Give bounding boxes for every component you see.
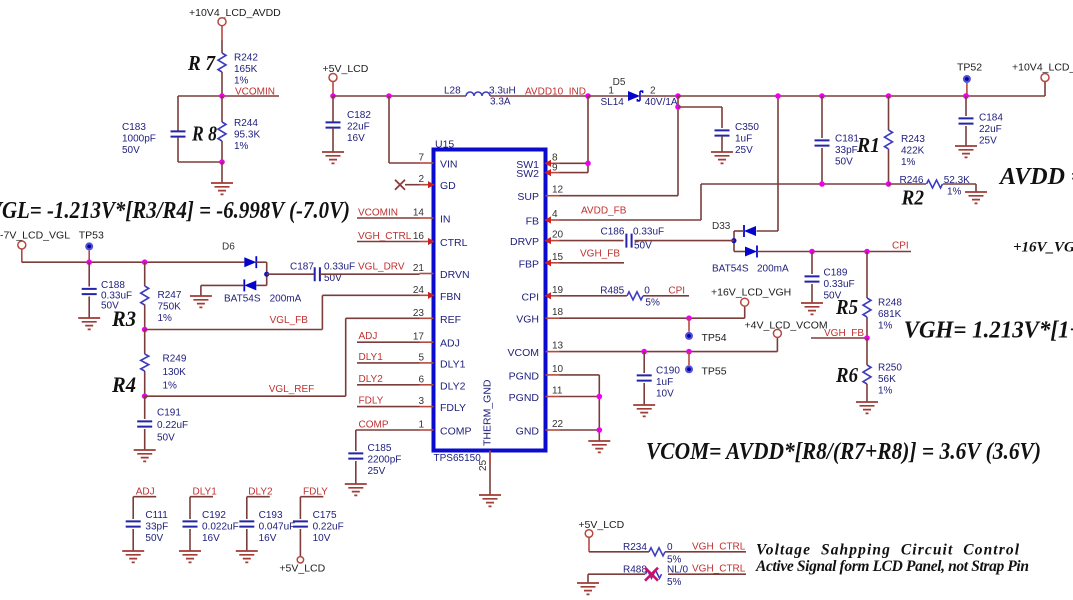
svg-text:R242: R242: [234, 53, 258, 64]
node C184 top junction: [963, 93, 969, 99]
wire strap row2 left: [588, 573, 645, 575]
svg-text:+5V_LCD: +5V_LCD: [279, 563, 325, 575]
node VGH_FB junction: [864, 335, 870, 341]
svg-text:750K: 750K: [158, 301, 182, 312]
node VGL_REF junction: [142, 393, 148, 399]
svg-text:C183: C183: [122, 122, 146, 133]
resistor R248 (R5): [866, 252, 868, 299]
svg-text:5%: 5%: [645, 298, 660, 309]
svg-text:DLY1: DLY1: [440, 358, 466, 370]
node VIN tap junction: [386, 93, 392, 99]
capacitor C111: [132, 497, 134, 519]
svg-text:R246: R246: [900, 175, 924, 186]
svg-text:R485: R485: [600, 286, 624, 297]
svg-text:681K: 681K: [878, 309, 902, 320]
svg-text:1%: 1%: [158, 313, 173, 324]
node PGND11 junction: [597, 394, 603, 400]
ground below GND pins: [588, 441, 610, 452]
svg-text:TP52: TP52: [957, 62, 982, 74]
svg-text:VGL_DRV: VGL_DRV: [358, 262, 405, 273]
svg-text:+5V_LCD: +5V_LCD: [578, 519, 624, 531]
svg-text:25V: 25V: [368, 466, 386, 477]
svg-text:Voltage Sahpping Circuit Co: Voltage Sahpping Circuit Control: [756, 542, 1020, 559]
node D33 riser junction: [775, 93, 781, 99]
svg-text:3.3A: 3.3A: [490, 97, 511, 108]
pin 25 THERM_GND stub: [489, 451, 491, 496]
svg-text:FDLY: FDLY: [440, 402, 466, 414]
capacitor C190: [643, 352, 645, 373]
svg-text:VGH_CTRL: VGH_CTRL: [692, 542, 746, 553]
svg-text:-7V_LCD_VGL: -7V_LCD_VGL: [0, 230, 70, 242]
node TP54 junction: [686, 315, 692, 321]
svg-text:14: 14: [413, 208, 425, 219]
node R243 top junction: [886, 93, 892, 99]
svg-text:0.022uF: 0.022uF: [202, 521, 239, 532]
wire C187 to DRVN: [320, 273, 420, 275]
svg-text:25: 25: [478, 459, 489, 471]
node R8 bottom junction: [219, 159, 225, 165]
wire D6 lower left: [201, 284, 244, 286]
svg-text:VCOMIN: VCOMIN: [358, 208, 398, 219]
svg-text:CTRL: CTRL: [440, 237, 468, 249]
svg-text:VGH_CTRL: VGH_CTRL: [358, 231, 412, 242]
svg-text:50V: 50V: [145, 533, 163, 544]
resistor R246 (R2): [889, 183, 927, 185]
svg-text:CPI: CPI: [521, 291, 539, 303]
resistor R250 (R6): [866, 338, 868, 365]
svg-text:+5V_LCD: +5V_LCD: [323, 63, 369, 75]
wire SW riser: [587, 96, 589, 173]
svg-text:C111: C111: [145, 510, 168, 521]
svg-text:C187: C187: [290, 262, 314, 273]
node +5V junction: [330, 93, 336, 99]
wire L28 to D5 node: [490, 95, 588, 97]
ground below strap: [577, 583, 599, 594]
svg-text:17: 17: [413, 332, 425, 343]
wire VGL_FB net: [145, 329, 323, 331]
node TP52 junction: [963, 93, 969, 99]
ground below R246: [965, 192, 987, 203]
svg-text:PGND: PGND: [509, 392, 540, 404]
node VCOMIN junction: [219, 93, 225, 99]
svg-text:22: 22: [552, 419, 564, 430]
resistor R234: [649, 548, 665, 556]
svg-text:1%: 1%: [163, 381, 178, 392]
svg-text:DLY1: DLY1: [359, 352, 384, 363]
svg-text:4: 4: [552, 209, 558, 220]
wire SW2 stub: [560, 172, 589, 174]
node C189 top junction: [809, 249, 815, 255]
svg-text:11: 11: [552, 386, 563, 397]
wire VGL rail: [22, 261, 245, 263]
svg-text:REF: REF: [440, 314, 461, 326]
wire VGH_FB stub: [811, 337, 867, 339]
svg-text:VGH_FB: VGH_FB: [580, 249, 620, 260]
svg-text:0: 0: [644, 286, 650, 297]
wire VGH net: [560, 317, 745, 319]
svg-text:1%: 1%: [878, 385, 893, 396]
svg-text:VCOM: VCOM: [508, 347, 540, 359]
node AVDD junction 1: [675, 93, 681, 99]
port +5V_LCD (under C175): [297, 557, 303, 563]
svg-text:VGH_CTRL: VGH_CTRL: [692, 564, 746, 575]
ground below R250: [856, 402, 878, 413]
svg-text:R1: R1: [856, 133, 880, 157]
node C190 junction: [641, 349, 647, 355]
svg-text:52.3K: 52.3K: [944, 175, 970, 186]
svg-text:AVDD = 1.213V*[1+R1/R2] = 10.4: AVDD = 1.213V*[1+R1/R2] = 10.4V: [998, 164, 1073, 190]
svg-text:CPI: CPI: [892, 241, 909, 252]
svg-text:9: 9: [552, 162, 558, 173]
capacitor C186: [626, 234, 631, 248]
svg-text:5: 5: [418, 352, 424, 363]
svg-text:13: 13: [552, 341, 564, 352]
wire FBP stub: [560, 262, 625, 264]
svg-text:R243: R243: [901, 134, 925, 145]
node TP53 junction: [86, 259, 92, 265]
svg-text:FBN: FBN: [440, 291, 461, 303]
wire D33 left link: [734, 230, 744, 232]
wire AVDD_FB rail: [701, 183, 889, 185]
svg-text:50V: 50V: [122, 145, 140, 156]
svg-text:DRVN: DRVN: [440, 269, 470, 281]
svg-text:50V: 50V: [157, 433, 175, 444]
resistor R249 (R4): [144, 330, 146, 355]
svg-text:DLY2: DLY2: [440, 380, 466, 392]
ground below C190: [633, 405, 655, 416]
ground below C350: [711, 152, 733, 163]
wire COMP net: [356, 429, 420, 431]
svg-text:L28: L28: [444, 86, 461, 97]
svg-text:0.33uF: 0.33uF: [824, 279, 855, 290]
ground below C188: [78, 318, 100, 329]
test point TP55: [688, 352, 690, 366]
wire PGND11 net: [560, 396, 600, 398]
wire AVDD main rail: [678, 95, 1045, 97]
svg-text:C184: C184: [979, 113, 1003, 124]
svg-text:R244: R244: [234, 118, 258, 129]
svg-text:C193: C193: [259, 510, 283, 521]
op-amp U1 chip body TPS65150 U15: [434, 150, 546, 451]
svg-text:130K: 130K: [163, 367, 187, 378]
ground below C191: [134, 450, 156, 461]
wire DRVP to C186: [560, 240, 624, 242]
svg-text:R3: R3: [111, 306, 136, 331]
diode D5 SL14: [628, 91, 640, 101]
svg-text:C181: C181: [835, 134, 859, 145]
ground below C184: [955, 146, 977, 157]
capacitor C193: [246, 497, 248, 519]
svg-text:0.22uF: 0.22uF: [313, 521, 344, 532]
svg-text:3: 3: [418, 396, 424, 407]
ground below C185: [345, 484, 367, 495]
svg-text:10V: 10V: [656, 388, 674, 399]
wire D5 anode: [588, 95, 628, 97]
wire VCOM net: [560, 351, 778, 353]
capacitor C182: [332, 96, 334, 122]
svg-text:TP55: TP55: [702, 366, 727, 378]
svg-text:1uF: 1uF: [656, 377, 673, 388]
wire CPI rail: [757, 251, 911, 253]
svg-text:FDLY: FDLY: [359, 396, 384, 407]
capacitor C185: [355, 430, 357, 451]
svg-text:1%: 1%: [901, 157, 916, 168]
svg-text:D5: D5: [613, 77, 626, 88]
svg-text:CPI: CPI: [668, 286, 685, 297]
svg-text:5%: 5%: [667, 577, 682, 588]
svg-text:U15: U15: [435, 139, 454, 151]
svg-text:C192: C192: [202, 510, 226, 521]
wire C183 bottom lead: [177, 137, 179, 162]
svg-text:R249: R249: [163, 354, 187, 365]
svg-text:25V: 25V: [979, 135, 997, 146]
test point TP54: [688, 318, 690, 332]
svg-text:BAT54S: BAT54S: [224, 294, 261, 305]
resistor R485: [627, 292, 643, 300]
no-connect X on GD pin: [395, 180, 405, 190]
svg-text:0.33uF: 0.33uF: [633, 227, 664, 238]
svg-text:+10V4_LCD_AVDD: +10V4_LCD_AVDD: [1012, 62, 1073, 74]
svg-text:22uF: 22uF: [979, 124, 1002, 135]
wire CPI pin to R485: [560, 295, 627, 297]
capacitor C187: [315, 267, 320, 281]
svg-text:1%: 1%: [234, 75, 249, 86]
svg-text:50V: 50V: [634, 241, 652, 252]
svg-text:SUP: SUP: [517, 191, 539, 203]
wire VIN feed: [388, 96, 390, 163]
svg-text:R 8: R 8: [191, 122, 217, 146]
resistor R247 (R3): [144, 262, 146, 286]
wire R242 top lead: [221, 40, 223, 53]
svg-text:1: 1: [608, 86, 614, 97]
resistor R243 (R1): [888, 96, 890, 130]
wire strap row2 right: [668, 573, 746, 575]
svg-text:50V: 50V: [835, 156, 853, 167]
svg-text:VGL= -1.213V*[R3/R4] = -6.998V: VGL= -1.213V*[R3/R4] = -6.998V (-7.0V): [0, 198, 350, 224]
svg-text:AVDD10_IND: AVDD10_IND: [525, 87, 586, 98]
ground under pin 25: [479, 495, 501, 506]
svg-text:C350: C350: [735, 122, 759, 133]
svg-text:20: 20: [552, 230, 564, 241]
svg-text:C175: C175: [313, 510, 337, 521]
svg-text:0.33uF: 0.33uF: [324, 262, 355, 273]
svg-text:+10V4_LCD_AVDD: +10V4_LCD_AVDD: [189, 7, 281, 19]
wire to ground: [221, 162, 223, 183]
svg-text:1%: 1%: [234, 141, 249, 152]
svg-text:0.047uF: 0.047uF: [259, 521, 296, 532]
svg-text:200mA: 200mA: [270, 294, 302, 305]
svg-text:TP54: TP54: [702, 332, 727, 344]
svg-text:R5: R5: [835, 295, 858, 319]
capacitor C191: [144, 396, 146, 419]
wire D5 cathode: [640, 95, 678, 97]
diode D33 upper: [744, 226, 756, 236]
svg-text:FB: FB: [526, 216, 539, 228]
capacitor C183: [171, 131, 186, 136]
svg-text:422K: 422K: [901, 145, 925, 156]
svg-text:12: 12: [552, 185, 564, 196]
svg-text:AVDD_FB: AVDD_FB: [581, 206, 627, 217]
svg-text:COMP: COMP: [359, 420, 389, 431]
svg-text:+4V_LCD_VCOM: +4V_LCD_VCOM: [745, 320, 828, 332]
inductor L28: [466, 92, 490, 96]
svg-text:VIN: VIN: [440, 159, 458, 171]
svg-text:1uF: 1uF: [735, 133, 752, 144]
capacitor C175: [299, 497, 301, 519]
svg-text:D33: D33: [712, 221, 731, 232]
svg-text:VGL_REF: VGL_REF: [269, 384, 315, 395]
svg-text:SL14: SL14: [601, 97, 625, 108]
ground below C182: [322, 152, 344, 163]
wire strap row1 right: [665, 551, 746, 553]
svg-text:56K: 56K: [878, 374, 896, 385]
svg-text:DRVP: DRVP: [510, 236, 539, 248]
wire VGL_REF net: [145, 395, 346, 397]
node SW1 junction: [585, 161, 591, 167]
wire C186 to D33: [635, 240, 735, 242]
resistor R242 (R7): [218, 53, 226, 72]
svg-text:1%: 1%: [947, 187, 962, 198]
svg-text:R2: R2: [901, 186, 925, 210]
svg-text:GND: GND: [516, 426, 540, 438]
node AVDD10_IND junction: [585, 93, 591, 99]
svg-text:1%: 1%: [878, 320, 893, 331]
svg-text:VGL_FB: VGL_FB: [270, 315, 309, 326]
svg-text:40V/1A: 40V/1A: [645, 97, 678, 108]
node VGL_FB junction: [142, 327, 148, 333]
node R247 top junction: [142, 259, 148, 265]
wire D33 feed riser: [777, 96, 779, 231]
capacitor C192: [189, 497, 191, 519]
svg-text:VCOM= AVDD*[R8/(R7+R8)] = 3.6V: VCOM= AVDD*[R8/(R7+R8)] = 3.6V (3.6V): [646, 439, 1041, 465]
svg-text:16V: 16V: [347, 133, 365, 144]
svg-text:THERM_GND: THERM_GND: [482, 379, 494, 446]
svg-text:25V: 25V: [735, 145, 753, 156]
svg-text:ADJ: ADJ: [440, 338, 460, 350]
wire PGND10 net: [560, 374, 600, 376]
resistor R244 (R8): [221, 96, 223, 122]
node C181 top junction: [819, 93, 825, 99]
svg-text:95.3K: 95.3K: [234, 129, 260, 140]
wire D6 to C187: [267, 273, 315, 275]
node D6 mid junction: [264, 272, 269, 277]
svg-text:16V: 16V: [202, 533, 220, 544]
wire +5V rail to L28: [333, 95, 466, 97]
svg-text:COMP: COMP: [440, 426, 472, 438]
svg-text:7: 7: [418, 153, 424, 164]
svg-text:Active Signal form LCD Panel,: Active Signal form LCD Panel, not Strap …: [755, 558, 1029, 575]
svg-text:DLY2: DLY2: [248, 486, 273, 497]
node C181 bottom junction: [819, 181, 825, 187]
svg-text:R250: R250: [878, 363, 902, 374]
diode D33 lower: [745, 247, 757, 257]
svg-text:GD: GD: [440, 180, 456, 192]
svg-text:+16V_VGH= 1.2V: +16V_VGH= 1.2V: [1013, 240, 1073, 256]
wire C183 top lead: [177, 96, 179, 131]
svg-text:R 7: R 7: [187, 51, 216, 75]
svg-text:+16V_LCD_VGH: +16V_LCD_VGH: [711, 287, 791, 299]
svg-text:21: 21: [413, 263, 425, 274]
diode D6 upper: [244, 257, 256, 267]
svg-text:R4: R4: [111, 372, 136, 397]
svg-text:ADJ: ADJ: [359, 331, 378, 342]
svg-text:1000pF: 1000pF: [122, 133, 156, 144]
capacitor C350: [715, 130, 730, 135]
diode D6 lower: [244, 280, 256, 290]
svg-text:2: 2: [650, 86, 656, 97]
svg-text:33pF: 33pF: [145, 521, 168, 532]
ground below C189: [801, 303, 823, 314]
wire strap ground stub: [587, 574, 589, 583]
svg-text:3.3uH: 3.3uH: [489, 86, 516, 97]
svg-text:165K: 165K: [234, 64, 258, 75]
wire strap row1 left: [589, 551, 649, 553]
capacitor C188: [88, 262, 90, 286]
capacitor C189: [811, 252, 813, 275]
svg-text:16: 16: [413, 231, 425, 242]
ground below D6: [190, 296, 212, 307]
svg-text:19: 19: [552, 285, 564, 296]
capacitor C184: [965, 96, 967, 116]
wire SUP feed: [677, 96, 679, 196]
ground below C193: [236, 551, 258, 562]
wire R485 to CPI label: [643, 295, 689, 297]
svg-text:0.22uF: 0.22uF: [157, 420, 188, 431]
svg-text:18: 18: [552, 307, 564, 318]
svg-text:DLY1: DLY1: [193, 486, 218, 497]
svg-text:FDLY: FDLY: [303, 486, 328, 497]
node TP55 junction: [686, 349, 692, 355]
svg-text:R248: R248: [878, 298, 902, 309]
svg-text:C189: C189: [824, 268, 848, 279]
svg-text:D6: D6: [222, 242, 235, 253]
svg-text:R247: R247: [158, 290, 182, 301]
svg-text:200mA: 200mA: [757, 264, 789, 275]
capacitor C181: [821, 96, 823, 138]
svg-text:C190: C190: [656, 366, 680, 377]
svg-text:R6: R6: [835, 363, 858, 387]
ground below R8: [211, 183, 233, 194]
svg-text:23: 23: [413, 308, 425, 319]
svg-text:1: 1: [418, 420, 424, 431]
svg-text:VGH= 1.213V*[1+R5/R6] = 15.9V: VGH= 1.213V*[1+R5/R6] = 15.9V (16V): [904, 318, 1073, 344]
wire R242 bottom lead: [221, 72, 223, 96]
svg-text:6: 6: [418, 374, 424, 385]
wire D6 upper cathode: [256, 261, 266, 263]
wire C350 branch: [678, 106, 722, 108]
svg-text:FBP: FBP: [519, 258, 539, 270]
ground below C192: [179, 551, 201, 562]
svg-text:C191: C191: [157, 408, 181, 419]
svg-text:2: 2: [418, 174, 424, 185]
svg-text:R234: R234: [623, 542, 647, 553]
svg-text:10: 10: [552, 364, 564, 375]
svg-text:16V: 16V: [259, 533, 277, 544]
svg-text:33pF: 33pF: [835, 145, 858, 156]
resistor R488 (DNP): [646, 570, 662, 578]
wire VCOMIN rail: [178, 95, 279, 97]
wire SW1 stub: [560, 162, 589, 164]
svg-text:10V: 10V: [313, 533, 331, 544]
wire FB feed: [560, 219, 702, 221]
wire D33 top right: [757, 230, 779, 232]
node GND22 junction: [597, 427, 603, 433]
svg-text:VGH: VGH: [516, 314, 539, 326]
svg-text:TP53: TP53: [79, 230, 104, 242]
svg-text:2200pF: 2200pF: [368, 454, 402, 465]
svg-text:DLY2: DLY2: [359, 374, 384, 385]
node R248 top junction: [864, 249, 870, 255]
